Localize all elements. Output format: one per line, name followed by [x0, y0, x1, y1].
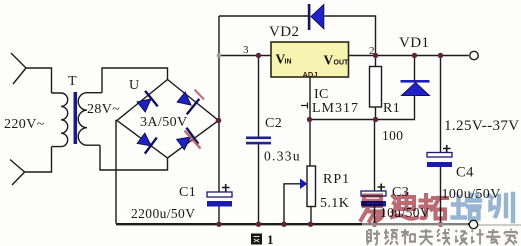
hanzi 专: [486, 229, 501, 245]
wire bridge left corner to ground bus: [116, 121, 118, 224]
bridge diode upper-left: [135, 91, 158, 115]
diode VD2: [308, 4, 324, 30]
svg-text:C1: C1: [179, 185, 196, 200]
IC pin labels: [276, 52, 350, 80]
svg-text:1: 1: [267, 232, 274, 246]
node C2 bottom on ground bus: [256, 222, 261, 227]
svg-text:0.33u: 0.33u: [264, 149, 301, 164]
wire VD1 cathode stub: [414, 56, 416, 81]
hanzi 线: [437, 229, 450, 245]
wire C4 column: [440, 56, 442, 153]
wire RP1 bottom to bus: [310, 207, 312, 224]
svg-text:IN: IN: [285, 59, 292, 66]
node C2 top junction on rail: [256, 53, 261, 58]
faint bus continuation to right edge: [478, 224, 521, 226]
hanzi 培: [453, 195, 481, 219]
pin 1 tick mark near ADJ: [301, 103, 308, 109]
svg-text:1.25V--37V: 1.25V--37V: [444, 118, 520, 134]
svg-text:ADJ: ADJ: [303, 70, 318, 79]
bridge diode lower-right: [175, 128, 199, 153]
svg-text:3: 3: [243, 44, 249, 56]
node C1 bottom on ground bus: [216, 222, 221, 227]
watermark translucent backdrop over ground bus: [362, 223, 468, 227]
svg-text:R1: R1: [383, 101, 400, 116]
capacitor C2: [246, 137, 271, 145]
hanzi 射: [367, 230, 380, 244]
wire pin2 to R1: [375, 56, 377, 67]
wire secondary top to bridge top: [102, 68, 168, 93]
svg-text:OUT: OUT: [334, 60, 350, 67]
watermark line2: hanzi 射频和天线设计专家 grey: [367, 229, 517, 245]
hanzi 拓: [421, 195, 448, 219]
svg-text:V: V: [324, 53, 334, 68]
svg-text:VD2: VD2: [269, 24, 299, 40]
bridge diode lower-left: [135, 130, 157, 154]
svg-text:28V~: 28V~: [87, 102, 120, 117]
node C4 bottom on ground bus: [438, 222, 443, 227]
hanzi 训: [489, 194, 513, 221]
hanzi 计: [472, 229, 484, 245]
wire VD2 top loop: [219, 15, 308, 17]
hanzi 迪: [392, 194, 417, 219]
grey junction marker at rail start: [217, 53, 222, 58]
ground bus bottom: [116, 223, 469, 225]
svg-text:C2: C2: [265, 116, 282, 131]
terminal input bottom: [10, 160, 25, 186]
svg-text:LM317: LM317: [312, 101, 359, 116]
node ADJ junction at R1 bottom: [373, 117, 378, 122]
output terminal circle top: [470, 51, 478, 59]
output terminal circle bottom: [469, 220, 477, 228]
hanzi 设: [456, 230, 468, 244]
node VD1 cathode junction on rail: [412, 53, 417, 58]
svg-text:100: 100: [382, 128, 403, 143]
capacitor C3: [361, 184, 386, 207]
watermark line1: hanzi 易迪拓 red: [361, 194, 447, 221]
node C3 bottom on ground bus: [372, 222, 377, 227]
svg-text:2200u/50V: 2200u/50V: [131, 206, 195, 221]
capacitor C1: [207, 184, 232, 207]
wire ADJ pin down to RP1: [309, 77, 311, 166]
hanzi 和: [401, 229, 415, 245]
bridge rectifier U diamond: [117, 80, 219, 159]
terminal input top: [10, 53, 52, 185]
transformer T primary winding: [52, 93, 68, 147]
diode VD1: [401, 80, 430, 96]
svg-text:IC: IC: [314, 87, 329, 102]
hanzi 天: [419, 229, 433, 245]
wire secondary bottom to bridge bottom: [100, 145, 168, 170]
node pin 2 junction on rail: [373, 53, 378, 58]
node bridge + output corner: [216, 118, 222, 124]
bridge diode upper-right: [175, 89, 199, 114]
op-amp/regulator IC U1 LM317 box: [271, 42, 349, 77]
hanzi 家: [505, 229, 518, 245]
wire bottom terminal to primary: [25, 147, 52, 172]
caption 图 1 : hanzi drawn: [251, 234, 262, 245]
hanzi 易: [361, 196, 383, 222]
transformer T secondary winding: [78, 93, 102, 146]
svg-text:VD1: VD1: [399, 35, 429, 51]
wire C2 column: [258, 56, 260, 137]
red watermark stroke over upper-right bridge arm: [195, 90, 205, 100]
hanzi 频: [384, 229, 398, 245]
wire output top rail: [219, 55, 271, 57]
node C4 top junction on rail: [438, 53, 443, 58]
potentiometer RP1 wiper arrow: [300, 179, 308, 190]
wire C3 column: [374, 120, 376, 192]
svg-text:C4: C4: [456, 165, 474, 181]
potentiometer RP1 body: [307, 166, 316, 207]
resistor R1: [370, 67, 382, 108]
node RP1 bottom on ground bus: [308, 222, 313, 227]
svg-text:U: U: [129, 78, 140, 93]
svg-text:T: T: [68, 74, 77, 89]
svg-text:2: 2: [369, 45, 375, 57]
node ADJ junction left: [307, 117, 312, 122]
wire ADJ horizontal node: [310, 96, 415, 120]
transformer core: [74, 92, 78, 144]
svg-text:RP1: RP1: [323, 172, 350, 187]
svg-text:5.1K: 5.1K: [320, 196, 349, 211]
svg-text:220V~: 220V~: [4, 117, 45, 132]
capacitor C4: [427, 145, 452, 167]
wire RP1 wiper to bus: [284, 184, 300, 224]
red watermark stroke over lower-right bridge arm: [185, 131, 201, 149]
node wiper return on ground bus: [281, 222, 286, 227]
wire top terminal to primary: [26, 68, 52, 93]
wire bridge right corner column (plus rail / C1): [218, 16, 220, 192]
svg-text:3A/50V: 3A/50V: [140, 115, 188, 130]
